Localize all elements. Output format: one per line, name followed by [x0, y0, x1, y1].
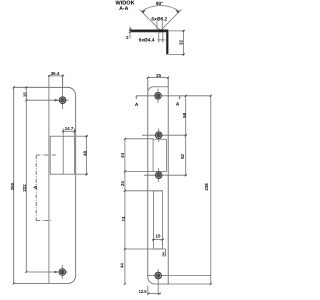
svg-text:14.7: 14.7: [65, 126, 74, 131]
bend line: [48, 75, 50, 284]
dim 12.5 line: [148, 293, 161, 295]
dim 14.7 ticks: [62, 130, 64, 132]
hole L1 dimension arrow: [55, 99, 59, 102]
dim 238 line: [210, 96, 212, 284]
svg-text:A: A: [176, 102, 180, 108]
pocket divider: [62, 136, 64, 174]
dim 48 ticks: [85, 135, 87, 137]
dim 50 line: [185, 96, 187, 175]
dim 2 ticks: [129, 28, 131, 30]
svg-text:74: 74: [121, 216, 126, 221]
hole L1 vertical centerline: [62, 75, 64, 110]
hole R2 centerline horizontal: [142, 134, 187, 136]
hole R1 circles: [155, 93, 162, 100]
svg-text:A: A: [135, 102, 139, 108]
dim 238 ticks: [210, 95, 212, 97]
section bracket bottom arm: [36, 220, 52, 222]
section leg (vertical, filled): [166, 32, 168, 54]
countersink cone right line: [161, 10, 182, 31]
svg-text:250: 250: [10, 182, 15, 190]
fold line horizontal: [153, 86, 168, 88]
dim 250 ticks on left edge: [13, 86, 15, 88]
dim 16.4 right extension: [62, 75, 64, 88]
hole L2 dimension arrow: [54, 271, 58, 274]
dim 16.4 line: [48, 75, 64, 77]
extension line slot2 bottom to chain: [125, 248, 166, 250]
hole L1 top: centerline horizontal: [26, 99, 68, 101]
dim 10 ticks: [152, 239, 154, 241]
extension line at slot1 bottom to chain: [125, 170, 153, 172]
chain ticks: [25, 86, 27, 88]
bottom edge extension to 238 dim: [168, 283, 211, 285]
hole L1 circles: [59, 97, 66, 104]
arc arrowhead right: [175, 10, 179, 13]
svg-text:A-A: A-A: [119, 6, 128, 12]
dim line 4.4: [157, 39, 165, 41]
svg-text:32: 32: [179, 40, 184, 45]
svg-text:44: 44: [120, 152, 125, 157]
svg-text:90°: 90°: [156, 1, 163, 7]
dim 32 line: [183, 30, 185, 56]
view label WIDOK A-A: [115, 1, 134, 12]
hole R2 circles: [155, 132, 162, 139]
countersink notch in bar: [157, 30, 165, 33]
pocket rectangle: [50, 136, 74, 174]
dim chain 15/222 line: [25, 87, 27, 272]
svg-text:10: 10: [156, 234, 161, 239]
hole R3 centerline horizontal: [144, 174, 187, 176]
svg-text:12.5: 12.5: [139, 289, 148, 294]
section bracket vertical: [35, 155, 37, 220]
svg-text:238: 238: [204, 183, 209, 191]
slot 2 (latch opening): [154, 191, 163, 249]
svg-text:44: 44: [119, 263, 124, 268]
hole R3 circles: [155, 172, 162, 179]
leader lines for D4.4: [158, 32, 160, 42]
dim 25 ticks on top edge: [147, 77, 149, 79]
extension line slot2 top to chain: [125, 190, 162, 192]
plate outline: [14, 87, 76, 283]
section bracket top arm / pocket centerline: [36, 154, 56, 156]
svg-text:36.4: 36.4: [51, 71, 60, 76]
hole L2 circles: [59, 269, 66, 276]
hole L2 bottom: centerline horizontal: [26, 271, 68, 273]
dim 10 line: [152, 239, 164, 241]
dim 32 ticks: [182, 30, 184, 32]
svg-text:6xØ8.2: 6xØ8.2: [151, 17, 167, 23]
plate outline: [148, 78, 168, 284]
dim 32 extension lines: [169, 30, 185, 32]
dim 12.5 ticks: [147, 293, 149, 295]
fold line corner curve: [148, 87, 153, 93]
step dim leader vertical: [165, 249, 167, 256]
dim 12.5 left extension: [147, 286, 149, 295]
left chain dimension line: [124, 139, 126, 284]
arc arrowhead left: [141, 10, 145, 13]
hole L2 vertical centerline: [61, 265, 63, 279]
countersink cone left line: [140, 10, 161, 31]
dim 2 line: [129, 27, 131, 39]
dim 48 extensions: [76, 135, 88, 137]
dim 14.7 extensions: [62, 129, 64, 136]
slot 1 (wide recess): [153, 139, 166, 171]
svg-text:222: 222: [22, 184, 27, 192]
svg-text:48: 48: [83, 151, 88, 156]
svg-text:24: 24: [120, 181, 125, 186]
step dim underline: [162, 255, 166, 257]
hole R4 vertical centerline: [157, 269, 159, 294]
A-A left tick: [135, 96, 137, 99]
section bar (plate cut, filled): [130, 30, 169, 32]
90 degree arc: [141, 6, 179, 12]
svg-text:6xØ4.4: 6xØ4.4: [139, 37, 155, 43]
hole R4 circles: [155, 272, 162, 279]
svg-text:A: A: [33, 185, 39, 189]
dim 50/52 ticks: [185, 95, 187, 97]
svg-text:15: 15: [22, 92, 27, 97]
dim 48 line: [86, 135, 88, 176]
dim 16.4 ticks: [48, 75, 50, 77]
A-A right tick: [179, 96, 181, 99]
svg-text:52: 52: [180, 154, 185, 159]
hole R3 vertical centerline: [158, 168, 160, 182]
hole R2 vertical centerline: [158, 128, 160, 142]
dim 14.7 line: [62, 130, 76, 132]
section line A-A through hole R1: [136, 95, 211, 97]
chain top extension corner: [125, 138, 153, 140]
chain ticks: [124, 138, 126, 140]
svg-text:58: 58: [182, 112, 187, 117]
svg-text:25: 25: [156, 73, 161, 78]
leader lines for D8.2: [156, 22, 158, 30]
hole R1 vertical centerline: [157, 89, 159, 104]
hole R4 centerline horizontal: [147, 275, 211, 277]
